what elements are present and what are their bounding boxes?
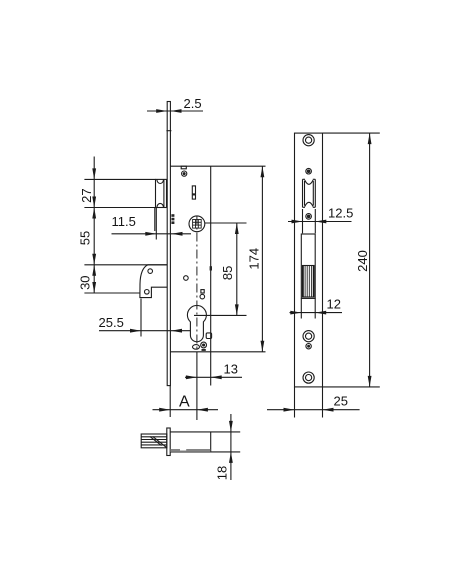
- svg-text:27: 27: [79, 188, 94, 202]
- svg-text:18: 18: [215, 466, 230, 480]
- svg-text:25: 25: [334, 394, 348, 409]
- svg-text:2.5: 2.5: [184, 96, 202, 111]
- svg-text:12.5: 12.5: [328, 206, 353, 221]
- svg-text:11.5: 11.5: [112, 214, 136, 229]
- svg-text:240: 240: [355, 250, 370, 272]
- svg-text:85: 85: [220, 266, 235, 280]
- svg-text:13: 13: [224, 362, 238, 377]
- svg-text:12: 12: [327, 297, 341, 312]
- svg-text:A: A: [179, 394, 190, 411]
- svg-text:174: 174: [246, 248, 261, 270]
- svg-text:25.5: 25.5: [99, 315, 124, 330]
- svg-text:55: 55: [77, 231, 92, 245]
- svg-text:30: 30: [77, 275, 92, 289]
